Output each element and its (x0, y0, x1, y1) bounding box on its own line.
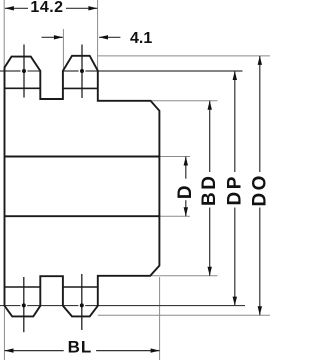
root line bottom right plate (63, 286, 98, 288)
arrowhead DO up (258, 56, 262, 65)
pitch line bottom (extends right as DP extension) (0, 305, 245, 307)
dimension line BL (5, 350, 160, 352)
root line top left plate (5, 87, 41, 89)
extension line D bottom (160, 215, 190, 217)
arrowhead 4.1 left (54, 35, 63, 39)
dimension line 4.1 (42, 36, 121, 38)
center line tooth 2 bottom (81, 274, 83, 330)
pitch dot tooth 2 bottom (80, 303, 84, 307)
extension line BD bottom (150, 275, 217, 277)
pitch line top (through tooth centers, extends right as DP extension) (0, 70, 243, 72)
arrowhead 14.2 right (88, 6, 97, 10)
arrowhead BD down (208, 267, 212, 276)
center line tooth 1 bottom (23, 277, 25, 332)
svg-text:DP: DP (224, 174, 245, 205)
bore line top (5, 156, 160, 158)
arrowhead DO down (258, 306, 262, 315)
dimension line DO (259, 56, 261, 315)
arrowhead BL left (5, 348, 14, 352)
arrowhead DP up (233, 71, 237, 80)
extension line BL right (159, 277, 161, 360)
center line tooth 2 top (81, 45, 83, 99)
sprocket body outline (5, 56, 160, 317)
root line bottom left plate (5, 286, 41, 288)
svg-text:4.1: 4.1 (130, 30, 152, 47)
svg-text:D: D (175, 183, 196, 199)
arrowhead D up (184, 157, 188, 166)
svg-text:BD: BD (199, 174, 220, 206)
root line top right plate (63, 87, 98, 89)
pitch dot tooth 2 top (80, 69, 84, 73)
bore line bottom (5, 215, 160, 217)
extension line BD top (151, 100, 218, 102)
extension line DO top (98, 55, 270, 57)
arrowhead BD up (208, 101, 212, 110)
svg-text:BL: BL (68, 338, 93, 357)
dimension line DP (234, 71, 236, 306)
arrowhead BL right (151, 348, 160, 352)
extension line left (14.2 / BL left) (3, 0, 5, 360)
svg-text:DO: DO (249, 173, 270, 207)
extension line 4.1 left (62, 29, 64, 70)
svg-text:14.2: 14.2 (30, 0, 63, 16)
extension line right of plates (14.2 / 4.1 right) (97, 0, 99, 70)
dimension line D (185, 157, 187, 217)
pitch dot tooth 1 top (22, 69, 26, 73)
extension line DO bottom (98, 314, 270, 316)
arrowhead D down (184, 207, 188, 216)
extension line D top (160, 156, 190, 158)
dimension line 14.2 (5, 7, 98, 9)
center line tooth 1 top (23, 45, 25, 98)
arrowhead DP down (233, 297, 237, 306)
arrowhead 4.1 right (99, 35, 108, 39)
pitch dot tooth 1 bottom (22, 303, 26, 307)
arrowhead 14.2 left (5, 6, 14, 10)
dimension line BD (209, 101, 211, 276)
